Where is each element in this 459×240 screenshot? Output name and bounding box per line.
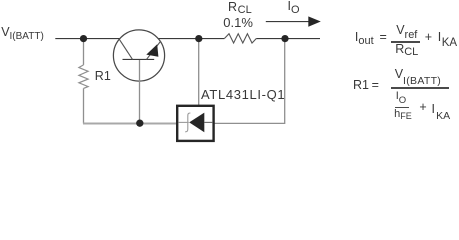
label 0.1%	[223, 16, 253, 29]
equation 2: small denominator hFE	[394, 109, 412, 120]
wire: R1 bottom to bottom rail	[83, 88, 85, 123]
op-amp U1: ATL431LI-Q1 box outline	[177, 106, 213, 141]
equation 1: numerator Vref	[396, 24, 417, 37]
resistor RCL	[224, 34, 256, 43]
equation 1: fraction bar	[391, 41, 421, 42]
junction node: emitter/ref sense	[195, 35, 202, 42]
equation 1: denominator RCL	[395, 43, 418, 56]
label IO	[288, 0, 300, 13]
label R1	[95, 70, 111, 83]
transistor Q1 base bar	[123, 58, 155, 60]
equation 2: equals sign	[372, 79, 379, 92]
transistor Q1 emitter arrow (PNP)	[146, 44, 158, 57]
wire: bottom rail to ATL431 anode	[83, 123, 177, 125]
junction node: base/bottom rail	[136, 120, 143, 127]
equation 1: plus sign	[425, 31, 432, 44]
wire: reference sense line down to ATL431	[198, 39, 200, 105]
wire: R1 top stub	[83, 39, 85, 65]
equation 2: small fraction bar	[395, 107, 409, 108]
junction node: battery/R1	[80, 35, 87, 42]
wire: cathode riser from output node down and left to ATL431	[215, 39, 285, 124]
wire: IO arrow shaft	[266, 21, 310, 23]
equation 2: main fraction bar	[391, 87, 450, 88]
transistor Q1 collector lead	[119, 39, 132, 59]
equation 2: IKA term	[432, 103, 451, 116]
equation 1: Iout term	[355, 31, 374, 44]
label ATL431LI-Q1	[201, 88, 285, 101]
equation 2: R1 term	[353, 79, 369, 92]
transistor Q1 emitter lead	[147, 41, 161, 59]
wire: RCL to output	[256, 38, 320, 40]
label RCL	[228, 1, 252, 14]
ATL431 internal triangle	[189, 113, 204, 133]
equation 1: IKA term	[438, 31, 457, 45]
junction node: RCL output/cathode riser	[281, 35, 288, 42]
ATL431 internal anode lead (gray)	[178, 121, 189, 123]
label V_I(BATT)	[1, 26, 44, 39]
equation 2: numerator VI(BATT)	[395, 68, 441, 81]
equation 1: equals sign	[380, 31, 387, 44]
transistor Q1 base lead	[139, 60, 141, 123]
wire: V_I(BATT) input to transistor collector	[55, 38, 120, 40]
equation 2: plus sign	[419, 101, 426, 114]
resistor R1	[79, 65, 88, 89]
wire: emitter to RCL	[158, 38, 224, 40]
ATL431 internal cathode lead	[204, 121, 212, 123]
equation 2: small numerator IO	[396, 91, 406, 102]
wire: reference line inside box to triangle	[198, 105, 200, 116]
transistor Q1 body circle	[113, 30, 164, 81]
arrowhead of IO current arrow	[308, 16, 321, 26]
ATL431 internal cathode bar (integral-like hook)	[185, 113, 190, 132]
